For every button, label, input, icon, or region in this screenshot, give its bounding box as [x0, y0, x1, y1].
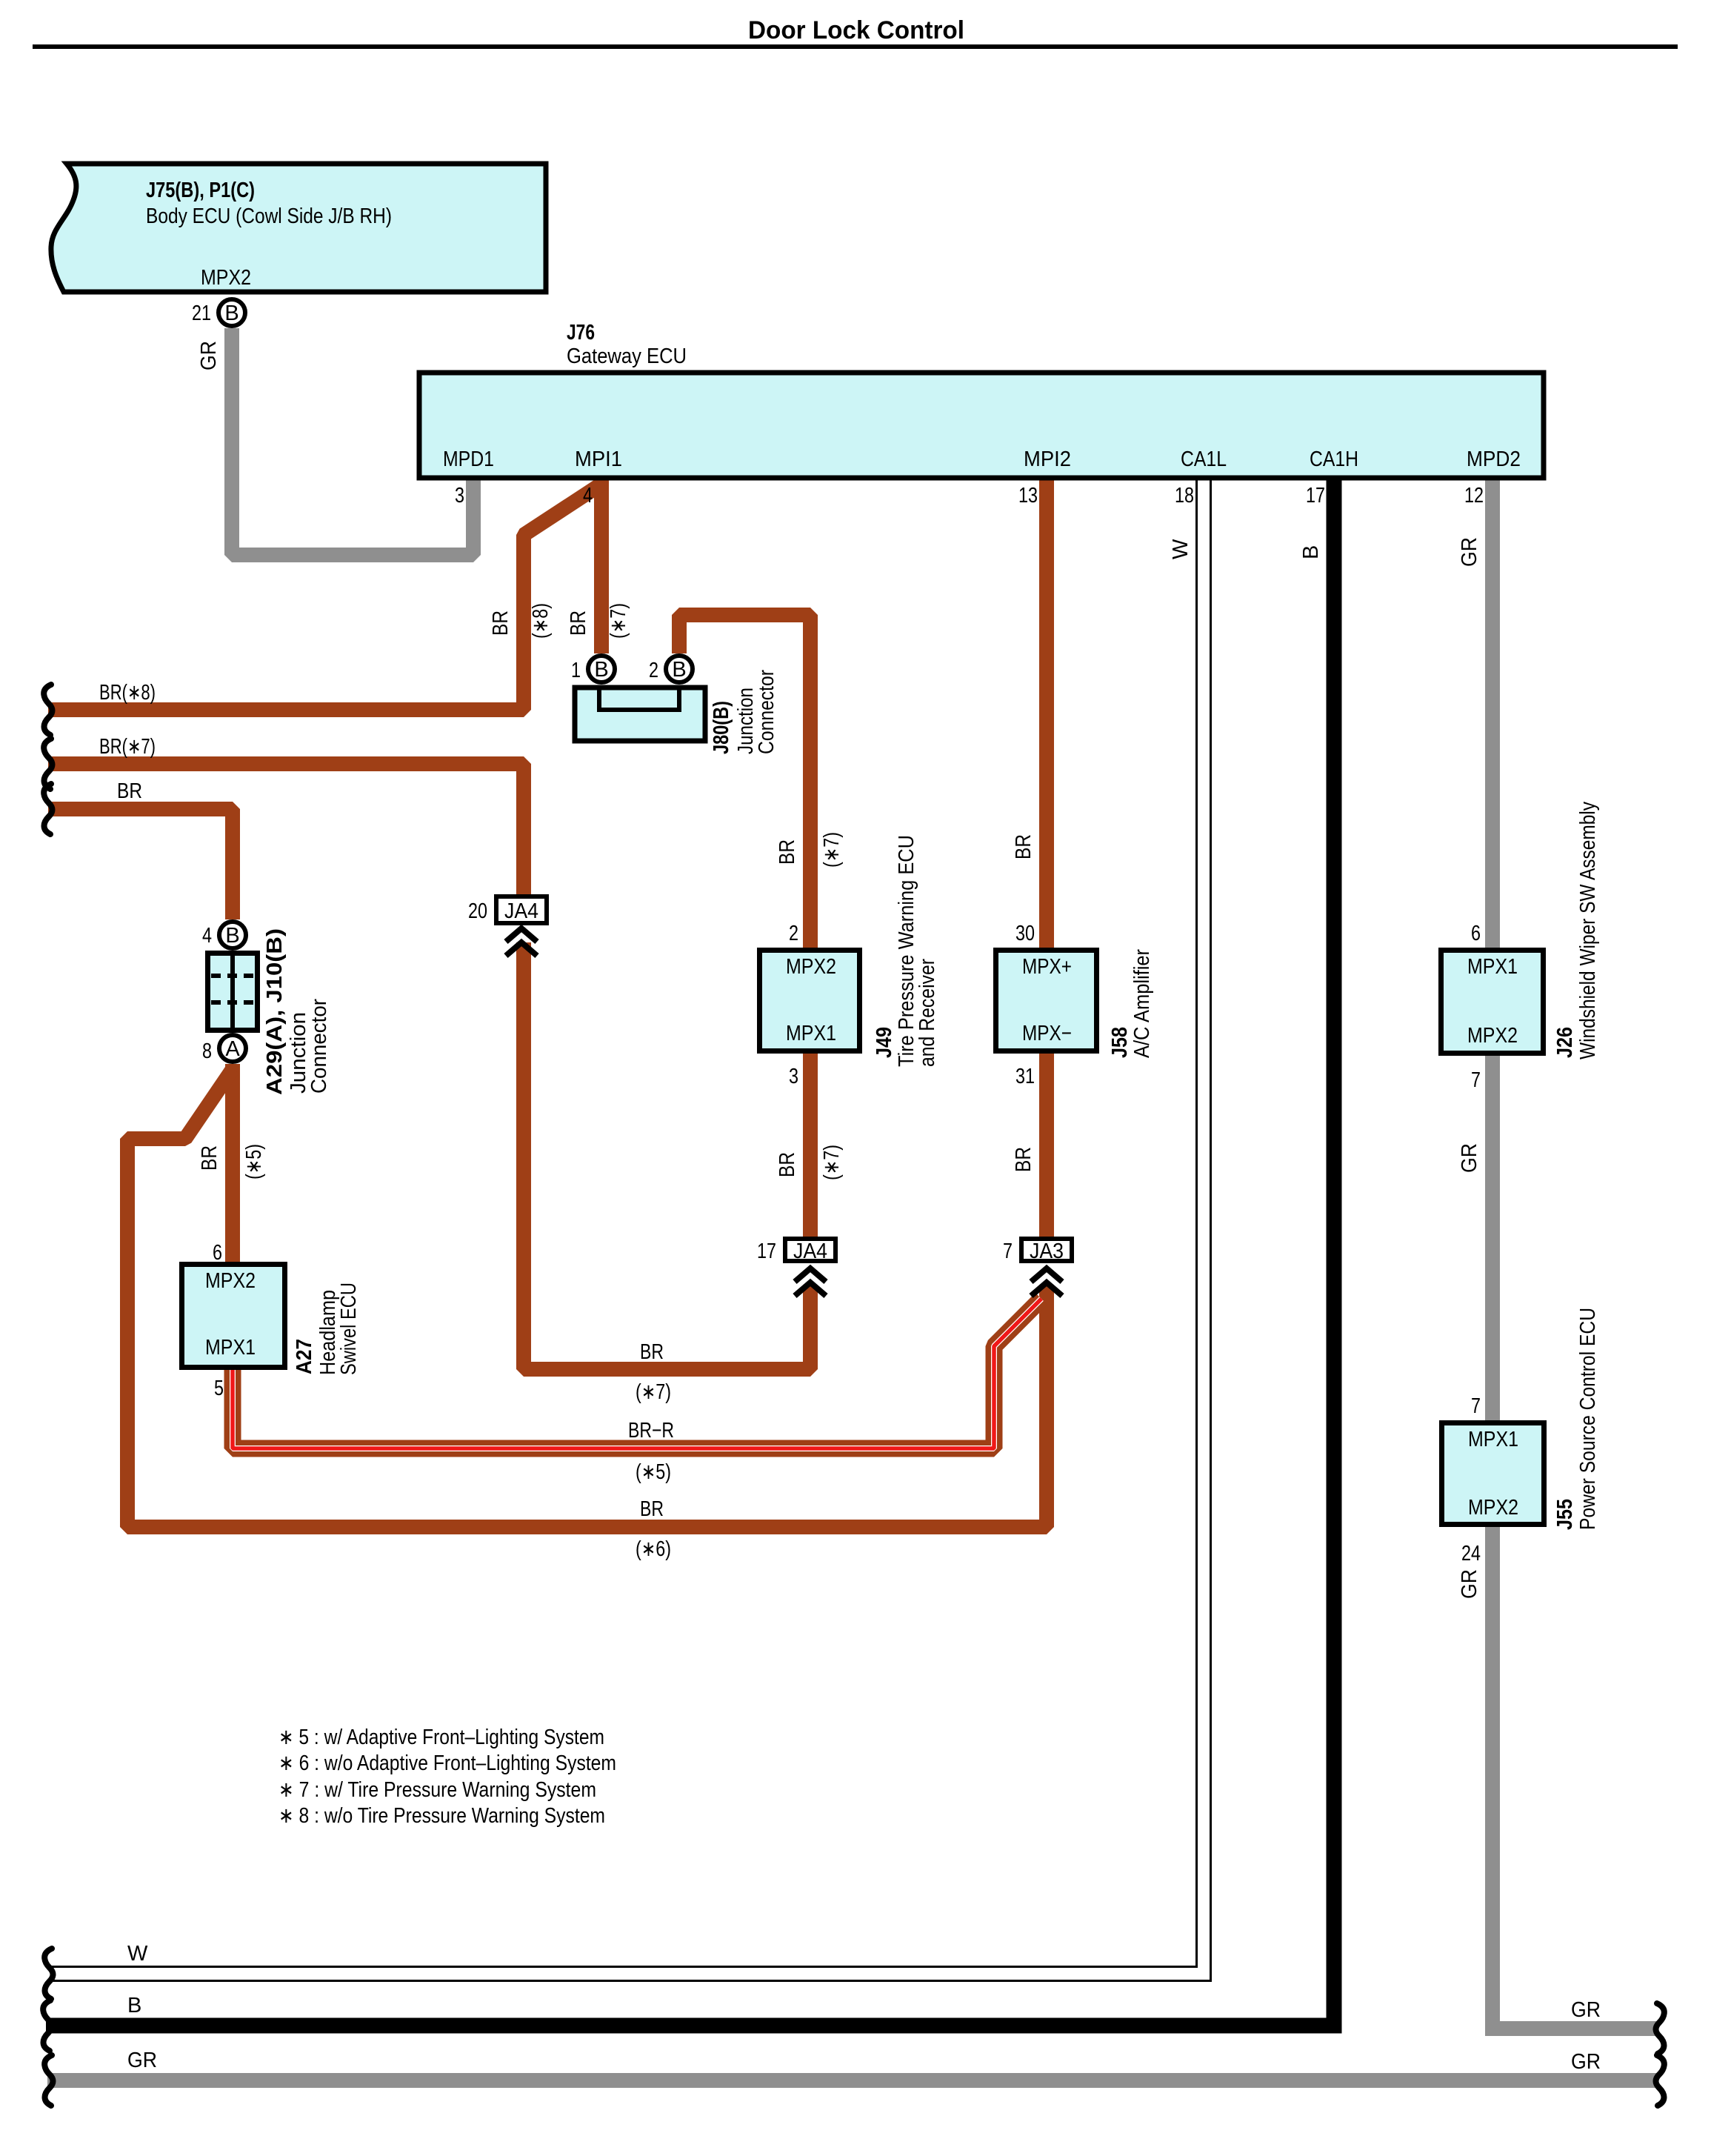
- svg-text:BR: BR: [640, 1340, 664, 1364]
- J58 box A/C Amplifier: [996, 951, 1097, 1051]
- A27 box Headlamp Swivel ECU: [182, 1265, 285, 1368]
- wire BR (*7) continuation below JA4(20) arrow, right along bottom, up to JA4(17) arrow: [524, 942, 810, 1369]
- svg-text:Swivel ECU: Swivel ECU: [337, 1282, 361, 1375]
- svg-text:A/C Amplifier: A/C Amplifier: [1130, 949, 1154, 1058]
- svg-text:Power Source Control ECU: Power Source Control ECU: [1576, 1308, 1600, 1530]
- svg-text:GR: GR: [1458, 1569, 1481, 1599]
- wire BR from J58 pin 31 down to JA3(7): [1039, 1053, 1054, 1237]
- svg-text:MPX+: MPX+: [1022, 955, 1072, 979]
- svg-text:MPX1: MPX1: [205, 1336, 256, 1360]
- svg-text:21: 21: [192, 302, 211, 325]
- svg-text:BR: BR: [776, 1152, 799, 1177]
- svg-text:B: B: [594, 658, 608, 682]
- svg-text:(∗7): (∗7): [636, 1380, 671, 1404]
- svg-text:JA4: JA4: [793, 1240, 827, 1263]
- wire BR horizontal from left edge to A29 junction pin 4: [48, 809, 233, 919]
- wire GR bottom horizontal across page: [47, 2073, 1657, 2088]
- svg-text:7: 7: [1471, 1394, 1481, 1418]
- wire BR (*6) branch from A29 pin 8 diagonal, down left side, along bottom, up to JA3 arrow: [127, 1069, 1047, 1527]
- Gateway ECU box J76: [419, 373, 1544, 478]
- svg-text:MPX1: MPX1: [1467, 955, 1518, 979]
- JA4 connector (pin 20): [496, 896, 547, 923]
- svg-text:4: 4: [583, 484, 593, 508]
- svg-text:JA4: JA4: [504, 899, 538, 923]
- svg-text:GR: GR: [197, 341, 221, 370]
- A29 junction grid box: [208, 954, 258, 1031]
- wire BR from Gateway MPI1 pin 4 down to J80 pin 1: [594, 479, 609, 653]
- svg-text:J26: J26: [1553, 1027, 1577, 1058]
- svg-text:J75(B), P1(C): J75(B), P1(C): [146, 179, 255, 202]
- squiggle left end BR: [44, 784, 52, 834]
- svg-text:Body ECU (Cowl Side J/B RH): Body ECU (Cowl Side J/B RH): [146, 204, 392, 228]
- svg-text:A29(A), J10(B): A29(A), J10(B): [263, 928, 287, 1095]
- svg-text:MPD2: MPD2: [1467, 447, 1521, 471]
- svg-text:7: 7: [1471, 1068, 1481, 1092]
- svg-text:BR(∗7): BR(∗7): [99, 735, 156, 759]
- svg-text:5: 5: [214, 1377, 224, 1400]
- svg-text:GR: GR: [1571, 1998, 1601, 2022]
- svg-text:(∗5): (∗5): [242, 1144, 266, 1180]
- svg-text:17: 17: [757, 1240, 776, 1263]
- squiggle right end bottom GR wire: [1656, 2055, 1664, 2106]
- svg-text:Door Lock Control: Door Lock Control: [748, 16, 964, 44]
- wire BR-R white stripe: [233, 1299, 1041, 1448]
- svg-text:A: A: [225, 1037, 240, 1061]
- svg-text:BR: BR: [198, 1145, 221, 1171]
- svg-text:30: 30: [1015, 922, 1035, 945]
- A29(A),J10(B) junction connector: pin 4 circle B: [219, 922, 246, 948]
- svg-text:GR: GR: [1458, 1143, 1481, 1173]
- JA4 connector (pin 17): [785, 1239, 836, 1261]
- svg-text:∗ 7 : w/ Tire Pressure Warning: ∗ 7 : w/ Tire Pressure Warning System: [279, 1778, 596, 1802]
- Body ECU box J75(B),P1(C) with wavy left edge: [51, 164, 546, 292]
- svg-text:GR: GR: [1458, 537, 1481, 567]
- svg-text:J80(B): J80(B): [710, 701, 733, 754]
- svg-text:MPX2: MPX2: [1468, 1496, 1518, 1520]
- J55 box Power Source Control ECU: [1442, 1423, 1544, 1525]
- svg-text:Windshield Wiper SW Assembly: Windshield Wiper SW Assembly: [1576, 802, 1600, 1059]
- svg-text:6: 6: [1471, 922, 1481, 945]
- svg-text:31: 31: [1015, 1065, 1035, 1088]
- svg-text:(∗6): (∗6): [636, 1537, 671, 1561]
- svg-text:∗ 8 : w/o Tire Pressure Warnin: ∗ 8 : w/o Tire Pressure Warning System: [279, 1804, 605, 1828]
- svg-text:GR: GR: [127, 2049, 157, 2072]
- pin 21 connector circle B on Body ECU: [219, 299, 245, 326]
- wire BR from J49 pin 3 down to JA4(17): [803, 1053, 818, 1237]
- svg-text:(∗7): (∗7): [607, 603, 630, 639]
- squiggle left end BR(*7): [44, 739, 52, 789]
- svg-text:BR: BR: [567, 610, 590, 636]
- wire BR-R (*5) from A27 pin 5 along to JA3 arrow: brown base: [233, 1299, 1041, 1448]
- J26 box Windshield Wiper SW Assembly: [1441, 951, 1544, 1054]
- svg-text:MPI1: MPI1: [575, 447, 622, 471]
- svg-text:Gateway ECU: Gateway ECU: [567, 345, 687, 368]
- svg-text:MPD1: MPD1: [443, 447, 494, 471]
- svg-text:BR−R: BR−R: [628, 1419, 674, 1443]
- svg-text:A27: A27: [293, 1339, 316, 1374]
- svg-text:MPX2: MPX2: [201, 266, 251, 290]
- wire GR from Body ECU pin 21 to Gateway MPD1 pin 3: [232, 328, 473, 555]
- wire BR (*7) horizontal from left edge then down through JA4(20): [48, 764, 524, 894]
- squiggle left end BR(*8): [44, 685, 52, 735]
- svg-text:BR(∗8): BR(∗8): [99, 681, 156, 705]
- svg-text:B: B: [224, 302, 239, 325]
- wire BR branch (*8) diagonal from MPI1 wire to vertical then left to edge: [48, 483, 603, 710]
- svg-text:(∗8): (∗8): [529, 603, 553, 639]
- svg-text:18: 18: [1175, 484, 1194, 508]
- svg-text:MPX2: MPX2: [205, 1269, 256, 1293]
- svg-text:BR: BR: [1012, 1147, 1035, 1172]
- svg-text:J55: J55: [1553, 1499, 1577, 1530]
- svg-text:2: 2: [789, 922, 798, 945]
- wire BR from Gateway MPI2 pin 13 down to J58 pin 30: [1039, 479, 1054, 948]
- svg-text:B: B: [225, 924, 239, 948]
- svg-text:BR: BR: [489, 610, 513, 636]
- title rule: [33, 44, 1678, 49]
- svg-text:12: 12: [1464, 484, 1484, 508]
- squiggle right end J55 GR wire: [1656, 2003, 1664, 2054]
- svg-text:MPX1: MPX1: [786, 1022, 836, 1045]
- J80 inner tab: [599, 686, 679, 710]
- JA3 arrow chevrons: [1031, 1268, 1062, 1282]
- svg-text:2: 2: [649, 659, 658, 682]
- wire W (CA1L pin 18) down and left to edge: black outline: [47, 479, 1204, 1974]
- svg-text:20: 20: [468, 899, 487, 923]
- svg-text:BR: BR: [1012, 834, 1035, 859]
- svg-text:and Receiver: and Receiver: [915, 959, 939, 1067]
- svg-text:3: 3: [455, 484, 464, 508]
- wire BR-R red core: [233, 1299, 1041, 1448]
- svg-text:(∗5): (∗5): [636, 1460, 671, 1484]
- svg-text:13: 13: [1018, 484, 1038, 508]
- svg-text:MPI2: MPI2: [1024, 447, 1071, 471]
- svg-text:CA1H: CA1H: [1310, 447, 1358, 471]
- svg-text:BR: BR: [640, 1497, 664, 1521]
- svg-text:J58: J58: [1108, 1027, 1132, 1058]
- wire BR from J80 pin 2 up and over to J49 pin 2: [679, 615, 810, 948]
- svg-text:GR: GR: [1571, 2050, 1601, 2074]
- svg-text:7: 7: [1003, 1240, 1013, 1263]
- J80 pin 1 circle B: [588, 656, 615, 682]
- svg-text:B: B: [1299, 545, 1323, 559]
- svg-text:BR: BR: [776, 839, 799, 865]
- svg-text:J76: J76: [567, 321, 595, 345]
- A29 pin 8 circle A: [219, 1035, 246, 1062]
- svg-text:∗ 6 : w/o Adaptive Front–Light: ∗ 6 : w/o Adaptive Front–Lighting System: [279, 1751, 616, 1775]
- svg-text:Connector: Connector: [755, 670, 778, 754]
- svg-text:JA3: JA3: [1030, 1240, 1064, 1263]
- svg-text:MPX−: MPX−: [1022, 1022, 1072, 1045]
- svg-text:MPX1: MPX1: [1468, 1428, 1518, 1451]
- wire BR from A29 pin 8 down to A27 pin 6: [225, 1064, 240, 1264]
- svg-text:(∗7): (∗7): [820, 832, 844, 868]
- wire GR (MPD2 pin 12) down through J26 and J55 to bottom right: [1492, 479, 1657, 2029]
- svg-text:(∗7): (∗7): [820, 1145, 844, 1180]
- svg-text:MPX2: MPX2: [1467, 1024, 1518, 1048]
- svg-text:1: 1: [571, 659, 581, 682]
- J80 pin 2 circle B: [666, 656, 693, 682]
- JA4(20) arrow chevrons: [506, 928, 537, 942]
- svg-text:B: B: [127, 1994, 141, 2017]
- svg-text:∗ 5 : w/ Adaptive Front–Lighti: ∗ 5 : w/ Adaptive Front–Lighting System: [279, 1726, 604, 1749]
- svg-text:6: 6: [213, 1241, 222, 1265]
- svg-text:24: 24: [1461, 1542, 1481, 1566]
- squiggle left end B wire: [43, 2000, 51, 2051]
- svg-text:3: 3: [789, 1065, 798, 1088]
- svg-text:Connector: Connector: [307, 999, 331, 1094]
- svg-text:CA1L: CA1L: [1181, 447, 1227, 471]
- svg-text:BR: BR: [117, 779, 142, 803]
- svg-text:J49: J49: [873, 1027, 896, 1058]
- JA3 connector (pin 7): [1021, 1239, 1072, 1261]
- svg-text:8: 8: [202, 1039, 212, 1063]
- J80(B) junction connector box: [575, 688, 705, 741]
- svg-text:17: 17: [1306, 484, 1325, 508]
- wire W white core: [47, 474, 1204, 1974]
- JA4(17) arrow chevrons: [795, 1268, 826, 1282]
- svg-text:W: W: [1169, 539, 1193, 559]
- squiggle left end GR wire: [44, 2055, 53, 2106]
- svg-text:W: W: [127, 1942, 148, 1966]
- squiggle left end W wire: [44, 1949, 53, 1999]
- svg-text:MPX2: MPX2: [786, 955, 836, 979]
- svg-text:B: B: [672, 658, 686, 682]
- wire B (CA1H pin 17) down and left to edge: [46, 479, 1334, 2026]
- J49 box Tire Pressure Warning ECU and Receiver: [760, 951, 860, 1051]
- svg-text:4: 4: [202, 924, 212, 948]
